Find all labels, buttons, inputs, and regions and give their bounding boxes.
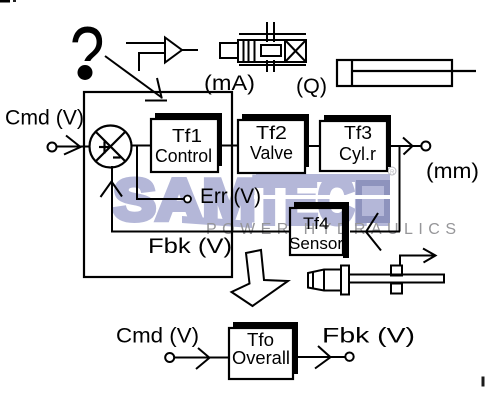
pointer line from question mark bbox=[105, 56, 161, 97]
block Tf3 Cyl.r bbox=[320, 115, 391, 171]
svg-text:Tf4: Tf4 bbox=[303, 214, 329, 233]
bottom output arrowhead bbox=[315, 346, 331, 369]
svg-text:Cyl.r: Cyl.r bbox=[339, 144, 376, 164]
svg-text:Tf1: Tf1 bbox=[172, 126, 202, 146]
wire Tf2 to Tf3 bbox=[309, 145, 320, 147]
svg-text:R: R bbox=[390, 170, 395, 176]
output arrowhead bbox=[403, 138, 413, 155]
node Err terminal bbox=[184, 196, 191, 203]
block Tf1 Control bbox=[151, 113, 222, 172]
watermark registered mark bbox=[388, 167, 396, 176]
wire bottom output bbox=[298, 356, 345, 358]
input arrowhead bbox=[64, 136, 81, 155]
svg-text:Control: Control bbox=[155, 146, 212, 166]
svg-text:Valve: Valve bbox=[250, 143, 293, 163]
watermark SAMTECH logo bbox=[113, 163, 390, 237]
outer feedback-loop box bbox=[84, 92, 232, 277]
wire input to summer bbox=[57, 146, 91, 148]
block Tf4 Sensor bbox=[289, 202, 349, 258]
svg-text:Cmd (V): Cmd (V) bbox=[5, 107, 84, 130]
bottom input terminal bbox=[165, 353, 174, 362]
pointer underline dash bbox=[145, 100, 167, 102]
wire feedback vertical from output node bbox=[399, 146, 401, 232]
svg-text:Overall: Overall bbox=[232, 348, 290, 368]
hydraulic cylinder symbol bbox=[337, 60, 476, 86]
feedback arrowhead into summer bbox=[101, 182, 123, 198]
summing junction bbox=[90, 126, 132, 168]
position sensor symbol bbox=[308, 266, 444, 295]
feedback arrowhead into Tf4 bbox=[366, 213, 381, 251]
wire Err tap bbox=[137, 146, 184, 200]
big outline arrow bbox=[232, 250, 289, 306]
svg-text:(mm): (mm) bbox=[426, 160, 479, 183]
block Tf2 Valve bbox=[238, 114, 309, 173]
wire Tf1 to Tf2 bbox=[222, 145, 238, 147]
stray scan mark top-left bbox=[0, 0, 10, 3]
hydraulic valve symbol bbox=[220, 22, 306, 72]
sensor motion arrow bbox=[400, 256, 435, 266]
block Tfo Overall bbox=[229, 322, 298, 379]
amplifier symbol bbox=[126, 38, 198, 72]
svg-text:Fbk (V): Fbk (V) bbox=[148, 235, 232, 258]
pointer arrowhead bbox=[157, 78, 162, 99]
stray scan mark bottom-right bbox=[482, 377, 485, 387]
svg-text:Sensor: Sensor bbox=[289, 234, 343, 253]
svg-text:(Q): (Q) bbox=[296, 75, 327, 98]
bottom input arrowhead bbox=[196, 348, 210, 369]
wire bottom input bbox=[175, 357, 230, 359]
output terminal circle bbox=[421, 142, 430, 151]
question mark annotation bbox=[70, 10, 105, 97]
svg-text:Err (V): Err (V) bbox=[200, 185, 261, 208]
svg-text:Cmd (V): Cmd (V) bbox=[116, 325, 199, 348]
wire Tf3 output bbox=[391, 145, 421, 147]
wire Tf4 output to summer bbox=[112, 166, 290, 232]
wire feedback into Tf4 bbox=[350, 231, 400, 233]
input terminal circle bbox=[48, 143, 57, 152]
svg-text:Fbk (V): Fbk (V) bbox=[322, 325, 415, 348]
svg-text:Tf2: Tf2 bbox=[256, 123, 287, 143]
bottom output terminal bbox=[345, 353, 353, 361]
wire summer to Tf1 bbox=[132, 145, 152, 147]
svg-text:?: ? bbox=[70, 10, 105, 97]
svg-text:Tfo: Tfo bbox=[247, 330, 274, 350]
svg-text:Tf3: Tf3 bbox=[344, 123, 372, 143]
